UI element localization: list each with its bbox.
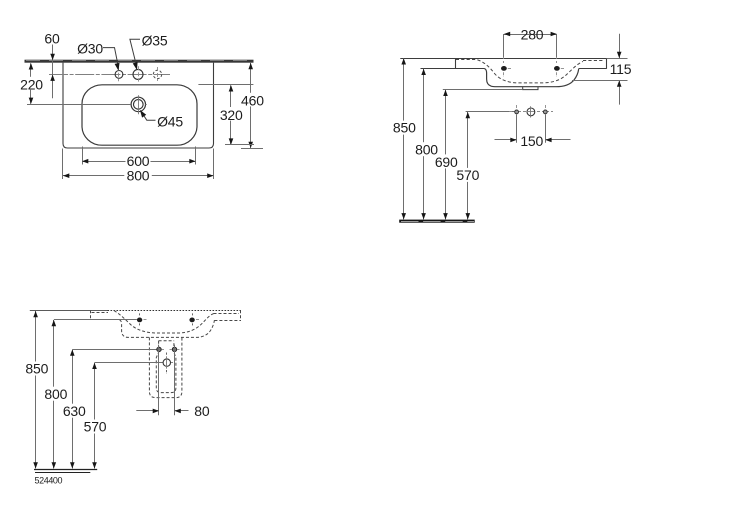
plan: tap hole centre (Ø35) <box>133 66 143 81</box>
svg-text:850: 850 <box>25 361 48 377</box>
plan: value label 220 <box>21 77 43 90</box>
rear: rim top edge (fine dashed) <box>108 310 242 312</box>
rear: right fixing dot <box>189 313 199 326</box>
plan: leader Ø45 <box>138 109 156 121</box>
svg-text:115: 115 <box>610 61 632 77</box>
front: hidden bowl interior (dashed) <box>456 60 604 83</box>
plan: dimension 320 <box>198 85 254 145</box>
front: left wall fixing hole <box>515 105 519 114</box>
svg-text:Ø30: Ø30 <box>77 41 103 57</box>
plan: value label 320 <box>220 107 244 121</box>
plan: tap hole center line <box>49 74 170 76</box>
rear: left fixing dot <box>137 313 147 326</box>
plan: optional tap hole (dashed) <box>153 67 161 81</box>
plan: basin body outline <box>63 63 214 148</box>
front: dimension 690 <box>443 90 448 220</box>
plan: value label 600 <box>126 154 151 167</box>
svg-text:280: 280 <box>521 26 544 42</box>
front: right end vertical <box>606 58 608 69</box>
front: drain boss <box>523 87 538 90</box>
svg-text:800: 800 <box>127 168 150 184</box>
plan: drain hole <box>131 95 147 114</box>
rear: dimension 800 <box>52 320 57 469</box>
front: dimension 570 <box>466 112 471 219</box>
svg-text:460: 460 <box>241 93 264 109</box>
rear: value label 800 <box>44 387 68 401</box>
rear: floor lines <box>34 470 97 473</box>
front: left underside with 800 extension <box>421 68 485 70</box>
svg-text:690: 690 <box>435 154 458 170</box>
svg-text:630: 630 <box>63 403 86 419</box>
svg-text:320: 320 <box>220 107 243 123</box>
svg-text:220: 220 <box>20 76 43 92</box>
svg-text:524400: 524400 <box>35 476 63 486</box>
front: dimension 115 <box>572 34 628 105</box>
front: value label 690 <box>435 154 458 168</box>
rear: rim top edge solid part + 850 extension line <box>30 310 108 312</box>
rear: right wall fixing circle <box>170 347 180 351</box>
rear: trap channel outer (dashed) <box>149 337 182 397</box>
plan: shelf back edge band <box>25 60 254 63</box>
svg-text:Ø45: Ø45 <box>157 113 183 129</box>
plan: drain centre extension line <box>27 104 131 106</box>
plan: value label 800 <box>124 168 152 181</box>
rear: value label 630 <box>62 404 86 418</box>
plan: dimension 600 <box>82 147 196 165</box>
front: value label 115 <box>609 60 635 77</box>
rear: 800 extension line <box>54 319 137 321</box>
svg-text:150: 150 <box>520 133 543 149</box>
front: dimension 800 <box>421 69 426 220</box>
front: 570 extension line <box>466 111 515 113</box>
plan: dimension 220 <box>29 63 34 104</box>
svg-text:Ø35: Ø35 <box>142 33 168 49</box>
front: left end vertical <box>455 58 457 69</box>
front: dimension 280 <box>504 32 557 57</box>
front: right underside <box>579 68 607 70</box>
rear: 80 extension lines <box>159 345 175 416</box>
plan: dimension 460 <box>241 63 263 149</box>
rear: left wall fixing circle <box>157 347 164 351</box>
plan: inner bowl outline <box>82 85 197 145</box>
front: apron outline <box>485 69 579 87</box>
front: dimension 850 <box>401 58 406 219</box>
front: wall holes centre line dashes <box>509 111 553 113</box>
front: drain outlet circle <box>527 106 535 117</box>
front: value label 850 <box>393 121 416 135</box>
front: rim top edge with 850 extension <box>400 58 606 60</box>
rear: dimension 630 <box>70 350 75 469</box>
rear: dimension 570 <box>92 363 97 469</box>
plan: dimension 800 <box>63 149 214 180</box>
svg-text:570: 570 <box>456 167 479 183</box>
rear: 570 extension line <box>95 362 164 364</box>
front: right wall fixing hole <box>543 105 547 114</box>
rear: drain circle <box>163 353 173 375</box>
svg-text:570: 570 <box>84 419 107 435</box>
front: dimension 150 <box>495 114 571 143</box>
front: value label 800 <box>415 142 439 156</box>
rear: hidden outline (dashed) <box>91 310 242 337</box>
plan: leader Ø35 <box>130 39 140 71</box>
front: 690 extension line / boss underline <box>443 89 523 91</box>
svg-text:800: 800 <box>44 386 67 402</box>
front: value label 570 <box>457 168 480 182</box>
plan: leader Ø30 <box>103 48 121 72</box>
front: floor hatch band <box>399 220 475 223</box>
rear: dimension 850 <box>33 311 38 469</box>
plan: dimension 60 <box>50 45 55 99</box>
svg-text:60: 60 <box>44 31 60 47</box>
rear: value label 570 <box>83 420 107 434</box>
rear: trap channel inner cavity (dashed) <box>156 341 176 393</box>
rear: dimension 80 <box>136 409 188 414</box>
rear: 630 extension line <box>72 349 157 351</box>
svg-text:80: 80 <box>194 403 210 419</box>
rear: value label 850 <box>24 362 48 376</box>
front: right fixing hole (section dot) <box>554 37 564 77</box>
svg-text:850: 850 <box>393 120 416 136</box>
plan: value label 460 <box>242 93 265 107</box>
front: left fixing hole (section dot) <box>501 37 511 77</box>
plan: tap hole left (Ø30) <box>115 67 123 81</box>
